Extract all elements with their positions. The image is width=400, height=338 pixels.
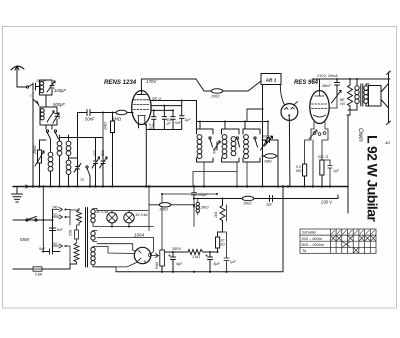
svg-text:210V, 28mA: 210V, 28mA	[316, 74, 338, 78]
wire speaker return down	[347, 115, 350, 213]
trimmer arrow group3	[261, 141, 267, 150]
screen wire y100.5	[151, 101, 197, 129]
small cap 100uF column	[192, 187, 197, 227]
selector arrow 220	[59, 215, 63, 219]
svg-text:10kΩ: 10kΩ	[243, 202, 252, 206]
coil L8	[222, 135, 227, 140]
resistor 1M vertical box	[111, 121, 115, 133]
svg-text:100µF: 100µF	[198, 193, 209, 197]
transformer primary upper	[78, 209, 80, 211]
coil L2 input	[40, 107, 57, 125]
tube top cap	[137, 91, 146, 95]
capacitor antenna series	[33, 83, 39, 90]
RES964 base	[311, 122, 328, 140]
svg-text:1064: 1064	[134, 232, 145, 237]
svg-text:200 – 600m: 200 – 600m	[302, 236, 323, 241]
output transformer secondary	[364, 86, 368, 90]
svg-text:230 V: 230 V	[320, 200, 333, 205]
svg-text:20kΩ: 20kΩ	[33, 145, 37, 155]
trimmer arrow 500pF	[265, 137, 273, 147]
svg-text:Ω: Ω	[326, 155, 329, 159]
coil group2 frame	[222, 129, 240, 162]
tube RES964 envelope	[310, 91, 329, 124]
trimmer arrow L1	[47, 81, 55, 92]
mains wire top	[13, 219, 53, 221]
svg-text:Feld: Feld	[155, 262, 159, 269]
resistor 20k oval	[159, 203, 171, 207]
wire y110.4	[151, 109, 173, 111]
resistor 25ohm box	[75, 230, 79, 239]
svg-text:4µF: 4µF	[176, 262, 183, 266]
group3 bottom to bus	[246, 162, 248, 187]
wire block1 to block2	[45, 95, 47, 107]
svg-text:5nF: 5nF	[39, 247, 46, 251]
antenna	[11, 66, 24, 70]
wire chassis to cap node	[42, 187, 44, 252]
wire AVC drop	[267, 122, 269, 140]
wire 280V line	[165, 251, 188, 253]
lamp La1	[107, 213, 117, 223]
table switch chart	[300, 229, 376, 253]
stub col2	[224, 122, 226, 130]
RES964 top cap	[315, 91, 324, 97]
bottom bus	[116, 271, 283, 273]
svg-text:1MΩ: 1MΩ	[104, 122, 108, 130]
capacitor 5nF lower	[42, 249, 60, 254]
coil L7	[197, 135, 202, 140]
bus contact arrow	[26, 185, 29, 188]
svg-text:100pF: 100pF	[54, 88, 66, 93]
field coil box	[161, 194, 163, 250]
svg-text:280V: 280V	[171, 247, 181, 251]
coil group1 frame	[197, 129, 214, 162]
switch S3	[86, 166, 88, 168]
svg-text:1MΩ: 1MΩ	[112, 117, 122, 122]
output transformer primary	[355, 86, 359, 90]
svg-text:1kΩ: 1kΩ	[214, 211, 218, 218]
trimmer arrow L2b	[53, 113, 59, 123]
svg-text:95 V: 95 V	[152, 97, 162, 102]
speaker terminals	[387, 71, 391, 125]
secondary heater winding top	[91, 209, 95, 213]
switch S6	[254, 137, 256, 139]
capacitor 48nF	[335, 79, 340, 95]
trimmer arrow L2a	[47, 111, 54, 122]
resistor 10k oval on heater line	[242, 196, 254, 200]
anode wire up to rail	[141, 79, 196, 91]
tone arrow	[332, 91, 342, 104]
svg-text:5nF: 5nF	[57, 228, 64, 232]
capacitor cathode	[322, 160, 332, 187]
cap bottom collector wire	[146, 101, 181, 130]
wire grid line y112.5	[78, 113, 88, 159]
band switch Sa	[46, 130, 48, 132]
wire AB1 cathode down	[288, 116, 291, 187]
wire AB1 down	[262, 85, 264, 187]
svg-text:4V 0,4A: 4V 0,4A	[136, 213, 149, 217]
coil L1 antenna variometer	[40, 80, 53, 95]
stub col1	[199, 122, 201, 130]
svg-text:1MΩ: 1MΩ	[264, 160, 272, 164]
capacitor 500pF	[263, 138, 279, 143]
svg-text:70: 70	[80, 178, 84, 182]
selector arrow 240	[59, 208, 63, 212]
svg-text:50nF: 50nF	[85, 117, 95, 122]
resistor R1 20k with arrow	[38, 150, 42, 163]
secondary HV winding	[91, 247, 95, 251]
capacitor 50nF	[87, 110, 116, 116]
resistor 10k box bottom	[216, 237, 220, 248]
wire col2	[59, 139, 61, 141]
tap wire L5/L6	[69, 158, 78, 166]
capacitor Cc	[171, 110, 175, 129]
lamp La2	[124, 213, 134, 223]
line y194 dot	[216, 193, 218, 195]
trimmer arrow group1	[214, 141, 220, 150]
speaker	[369, 86, 382, 107]
HT rail diagonal	[196, 79, 211, 91]
coil L6 lower	[66, 160, 71, 165]
svg-text:20kΩ: 20kΩ	[159, 208, 169, 212]
svg-text:RES 964: RES 964	[294, 80, 319, 86]
RES964 cathode arc	[314, 115, 326, 117]
resistor 1k zigzag horizontal	[188, 250, 218, 255]
svg-text:5nF: 5nF	[175, 121, 182, 125]
right riser	[282, 187, 284, 272]
mains switch	[26, 219, 28, 221]
lamp rail bottom	[97, 226, 154, 228]
svg-text:500: 500	[318, 155, 324, 159]
rectifier feed top	[97, 246, 108, 248]
svg-text:RENS 1234: RENS 1234	[104, 79, 137, 86]
tube cathode	[138, 116, 146, 125]
selector vertical	[52, 210, 54, 252]
svg-text:500pF: 500pF	[53, 102, 65, 107]
HT rail right	[312, 78, 390, 80]
trimmer C t1	[74, 164, 81, 187]
capacitor 4uF	[171, 252, 176, 272]
svg-text:4V 0,3A: 4V 0,3A	[96, 210, 109, 214]
heater line y198.5	[194, 195, 338, 199]
wires block2 down to band switches	[46, 125, 52, 129]
main ground bus	[13, 186, 348, 188]
svg-text:100Ω: 100Ω	[211, 95, 220, 99]
svg-text:240: 240	[51, 206, 58, 210]
wire y105.6	[151, 105, 182, 107]
mains wire bottom with fuse	[13, 268, 33, 270]
field coil line	[152, 254, 159, 258]
tube AB1 circle	[281, 104, 298, 121]
svg-text:L 92 W Jubilar: L 92 W Jubilar	[365, 135, 381, 222]
svg-text:25Ω: 25Ω	[69, 229, 73, 237]
coil L4	[57, 141, 62, 146]
svg-text:500: 500	[213, 148, 217, 154]
capacitor Ca	[152, 110, 156, 129]
svg-text:500pF: 500pF	[262, 135, 273, 139]
switch S4	[209, 137, 211, 139]
capacitor 5nF upper	[50, 228, 56, 231]
coil L3	[48, 152, 53, 157]
coil group3 frame	[243, 129, 260, 162]
svg-text:1 kΩ: 1 kΩ	[192, 255, 200, 259]
stub col3	[244, 122, 246, 130]
svg-text:0,8A: 0,8A	[35, 273, 43, 277]
rectifier tube 1064	[134, 247, 150, 263]
resistor 0.5M box	[303, 164, 307, 176]
cathode wire to bus	[139, 124, 147, 187]
resistor zigzag vertical	[348, 79, 353, 115]
svg-text:HD: HD	[340, 102, 345, 106]
var cap C1	[92, 138, 100, 187]
svg-text:1µF: 1µF	[333, 169, 340, 173]
svg-text:1µF: 1µF	[230, 260, 237, 264]
svg-text:500: 500	[101, 150, 105, 156]
svg-text:Schalter: Schalter	[302, 230, 317, 235]
resistor 1M oval horizontal	[116, 110, 127, 114]
AB1 box label frame	[261, 74, 281, 85]
tube RENS1234 envelope	[132, 91, 151, 125]
node x103 on grid wire	[102, 112, 104, 114]
top link line left bank	[60, 135, 104, 140]
svg-text:Owin: Owin	[357, 128, 363, 142]
RES964 anode wire to rail	[319, 79, 321, 91]
wire antenna to switch	[17, 86, 26, 88]
svg-text:1µF: 1µF	[185, 118, 192, 122]
labels small	[20, 74, 390, 277]
svg-text:220: 220	[51, 213, 58, 217]
svg-text:kΩ: kΩ	[221, 243, 226, 247]
svg-text:55W: 55W	[20, 237, 30, 242]
svg-text:170V: 170V	[146, 79, 157, 84]
transformer core	[361, 84, 363, 106]
choke HF zigzag vertical	[220, 199, 225, 233]
var cap C2	[100, 138, 108, 187]
coil L10	[244, 135, 249, 140]
coil L9	[231, 137, 236, 142]
svg-text:MΩ: MΩ	[296, 169, 302, 173]
wire 50nF node down	[77, 113, 79, 159]
transformer primary lower	[70, 243, 79, 264]
svg-text:8µF: 8µF	[214, 262, 221, 266]
RES964 grid dashes	[312, 104, 328, 109]
resistor 100ohm oval	[211, 89, 223, 93]
capacitor 8uF	[208, 252, 213, 272]
svg-text:28kΩ: 28kΩ	[200, 206, 209, 210]
group2 bottom line	[193, 162, 237, 187]
wire to coil col1	[50, 139, 52, 151]
svg-text:AB 1: AB 1	[265, 78, 277, 84]
svg-text:4Ω: 4Ω	[385, 141, 390, 145]
wire left edge down to bus	[32, 110, 34, 187]
bus junction dots	[32, 185, 331, 187]
resistor 1M oval AB1	[265, 154, 277, 158]
wire grid into tube	[132, 112, 133, 114]
tube grid dashes	[134, 100, 150, 110]
svg-text:1µF: 1µF	[266, 203, 273, 207]
group1 bottom to bus	[203, 162, 205, 187]
svg-text:110: 110	[52, 242, 57, 246]
wire node AB1 grid	[262, 108, 264, 110]
svg-text:48nF: 48nF	[322, 84, 331, 88]
center bank top line	[197, 121, 269, 123]
switch S2 left	[33, 91, 39, 110]
secondary mid winding	[91, 231, 95, 235]
switch S5	[236, 137, 238, 139]
lamp rail top	[97, 210, 148, 212]
capacitor Cb	[162, 106, 166, 130]
svg-text:800 – 2000m: 800 – 2000m	[302, 242, 325, 247]
svg-text:100pF: 100pF	[36, 79, 47, 83]
svg-text:500: 500	[93, 150, 97, 156]
rectifier left wire	[97, 238, 154, 254]
wire x103 up	[102, 113, 104, 138]
switch S1 antenna	[26, 86, 28, 88]
ground symbol	[16, 187, 18, 195]
resistor 500ohm box	[320, 160, 324, 175]
capacitor 1uF bottom	[223, 232, 230, 272]
capacitor 1uF heater	[270, 196, 273, 202]
band switch Sb	[54, 130, 56, 132]
selector arrow 110	[59, 244, 63, 248]
line y194 field	[162, 193, 217, 195]
coil L5 upper	[66, 141, 71, 146]
wires below base	[305, 140, 329, 187]
transformer core	[86, 208, 88, 268]
